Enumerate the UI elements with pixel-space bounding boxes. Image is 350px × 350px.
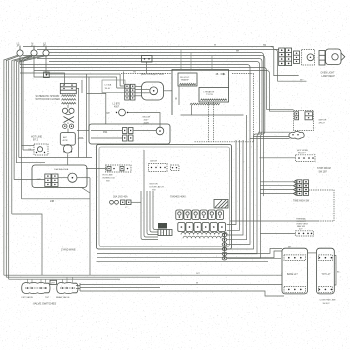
wire bbox=[18, 62, 20, 158]
wire bbox=[14, 179, 45, 181]
wire bbox=[135, 95, 142, 97]
wire bbox=[254, 136, 289, 138]
wire bbox=[76, 283, 80, 291]
wire bbox=[264, 68, 294, 110]
wire bbox=[20, 67, 264, 69]
label sensor bbox=[113, 104, 121, 109]
wire bbox=[271, 47, 299, 76]
relay K1 bbox=[28, 144, 48, 155]
sensor RT1 bbox=[107, 109, 129, 116]
label oven light bbox=[321, 73, 336, 78]
wire bbox=[81, 80, 83, 93]
wire bbox=[3, 60, 5, 276]
wire bbox=[16, 62, 18, 164]
control panel outline bbox=[121, 73, 172, 75]
wire bbox=[67, 105, 69, 108]
wire bbox=[227, 65, 250, 245]
wire bbox=[267, 71, 294, 112]
fuse F1 bbox=[44, 72, 50, 78]
wire bbox=[144, 150, 158, 237]
control outer box bbox=[172, 70, 229, 116]
node bbox=[222, 233, 227, 236]
wire bbox=[131, 201, 141, 203]
wire bbox=[227, 56, 265, 259]
wire bbox=[5, 60, 7, 277]
wire bbox=[91, 130, 123, 132]
wire bbox=[67, 123, 69, 125]
wire bbox=[9, 278, 120, 280]
wire bbox=[308, 252, 317, 254]
wire bbox=[58, 177, 68, 179]
door interlock switch S3 bbox=[106, 165, 132, 172]
wire bbox=[22, 62, 24, 150]
ignitor row bbox=[296, 155, 316, 162]
label convect fan bbox=[133, 72, 164, 77]
label hot line bbox=[31, 136, 42, 142]
sawtooth row bbox=[190, 103, 220, 105]
convection fan motor B1 bbox=[142, 82, 164, 100]
wire bbox=[22, 145, 35, 147]
wire bbox=[91, 137, 123, 139]
wire bbox=[190, 53, 192, 70]
wire bbox=[135, 92, 150, 94]
wire bbox=[119, 74, 121, 86]
wire bbox=[89, 178, 91, 276]
oven control U2 bbox=[199, 88, 229, 103]
wire bbox=[261, 53, 264, 197]
wire bbox=[135, 89, 150, 91]
timer motor M2 bbox=[68, 173, 77, 182]
door draft row bbox=[110, 200, 131, 209]
latch box inner bbox=[99, 147, 230, 247]
label schematic note bbox=[36, 95, 61, 101]
contact strip A bbox=[45, 174, 51, 187]
ignitor blob bbox=[289, 132, 304, 140]
wire bbox=[21, 61, 23, 199]
terminal pair T1 bbox=[123, 128, 134, 134]
wire bbox=[164, 90, 173, 92]
wire bbox=[12, 214, 42, 275]
wire bbox=[150, 191, 158, 232]
wire bbox=[82, 188, 91, 194]
panel dashed bottom bbox=[195, 141, 254, 143]
wire bbox=[260, 232, 296, 234]
contact strip B bbox=[52, 174, 58, 187]
wire bbox=[76, 88, 78, 90]
wire bbox=[88, 77, 90, 131]
wire bbox=[260, 157, 296, 159]
label bbox=[143, 117, 151, 125]
wire bbox=[97, 249, 282, 254]
relay contact block K2 bbox=[125, 84, 135, 100]
connector P1 bbox=[142, 56, 153, 74]
wire bbox=[97, 260, 269, 262]
wire bbox=[77, 177, 90, 179]
wire bbox=[230, 220, 318, 222]
thermal fuse row bbox=[296, 231, 314, 236]
control panel outline bbox=[253, 74, 255, 142]
label ignitor bbox=[297, 150, 308, 155]
wire bbox=[318, 220, 334, 222]
node bbox=[222, 247, 227, 250]
wire bbox=[49, 52, 261, 54]
label bbox=[319, 119, 327, 124]
transformer box U1 bbox=[178, 73, 197, 86]
wire bbox=[178, 86, 180, 105]
node bbox=[222, 243, 227, 246]
wire bbox=[23, 46, 274, 48]
wire bbox=[22, 56, 33, 62]
connector pair bbox=[294, 51, 300, 64]
wire bbox=[67, 154, 69, 165]
wire bbox=[80, 284, 282, 286]
wire bbox=[309, 190, 335, 221]
wire bbox=[77, 130, 89, 132]
wire bbox=[28, 277, 73, 283]
wire bbox=[227, 140, 243, 235]
wire bbox=[46, 56, 120, 74]
wire bbox=[141, 191, 158, 240]
node bbox=[222, 257, 227, 260]
wire bbox=[80, 287, 160, 289]
lamp receptacle LT3 bbox=[326, 49, 345, 65]
wire bbox=[87, 93, 106, 124]
wire bbox=[19, 157, 92, 159]
wire bbox=[4, 274, 282, 276]
element E0 bbox=[62, 95, 76, 104]
wire bbox=[37, 58, 259, 60]
wire bbox=[8, 61, 10, 280]
label ratings bbox=[113, 195, 186, 198]
wire bbox=[227, 257, 281, 259]
label latch sw bbox=[150, 184, 165, 192]
wire bbox=[227, 59, 262, 254]
ribbon bbox=[208, 102, 210, 142]
label interlock bbox=[103, 175, 116, 183]
terminal pair T2 bbox=[123, 135, 134, 141]
wire bbox=[12, 55, 33, 61]
terminal row 1 bbox=[176, 210, 224, 220]
terminal strip bbox=[286, 48, 292, 66]
scallop row bbox=[183, 236, 225, 238]
interlock X1 bbox=[64, 117, 75, 123]
control panel outline bbox=[232, 73, 254, 75]
wire bbox=[180, 50, 182, 70]
relay hatch K3 bbox=[214, 200, 228, 209]
node bbox=[222, 238, 227, 241]
wire bbox=[153, 191, 158, 230]
scallop row bbox=[181, 232, 227, 234]
sensor bulb RT2 bbox=[156, 127, 164, 135]
label box bbox=[50, 280, 57, 284]
wire bbox=[34, 70, 267, 72]
wire bbox=[117, 86, 125, 88]
terminal N bbox=[31, 42, 37, 57]
wire bbox=[78, 88, 80, 158]
wire bbox=[258, 131, 290, 133]
wire bbox=[37, 49, 279, 51]
broil unit E1 bbox=[294, 111, 314, 131]
wire bbox=[17, 55, 45, 62]
lamp bracket bbox=[319, 51, 325, 66]
label thermal bbox=[296, 218, 309, 231]
wire bbox=[181, 114, 244, 116]
wire bbox=[135, 86, 142, 88]
contacts C1 bbox=[63, 124, 74, 128]
oven lamp LT2 bbox=[302, 50, 315, 66]
wire bbox=[211, 56, 213, 70]
valve switch V2 bbox=[57, 282, 78, 293]
ribbon bbox=[213, 102, 215, 142]
label conv line bbox=[320, 300, 337, 305]
wire bbox=[227, 140, 240, 230]
wire bbox=[133, 130, 156, 132]
wire bbox=[275, 50, 307, 82]
terminal row 2 bbox=[178, 223, 226, 232]
burner box bbox=[282, 248, 308, 294]
wire bbox=[34, 56, 117, 77]
wire bbox=[250, 138, 290, 140]
door latch switch S4 bbox=[149, 160, 168, 172]
contacts C0 bbox=[62, 108, 74, 114]
timer assembly box bbox=[32, 165, 87, 188]
relay box K0 bbox=[60, 83, 76, 93]
wire bbox=[23, 149, 34, 151]
wire bbox=[191, 105, 193, 115]
relay R1 bbox=[158, 223, 172, 236]
terminal strip bbox=[279, 48, 285, 66]
wire bbox=[123, 72, 125, 85]
wire bbox=[147, 191, 158, 235]
wire bbox=[19, 56, 21, 64]
wire bbox=[4, 55, 19, 60]
wire bbox=[6, 276, 160, 278]
label stop drum bbox=[317, 168, 331, 173]
wire bbox=[49, 61, 257, 63]
terminal L1 bbox=[17, 42, 23, 57]
wire bbox=[17, 161, 46, 163]
oven box outline bbox=[89, 124, 170, 144]
wire bbox=[334, 256, 336, 286]
latch box outline bbox=[97, 145, 232, 250]
wire bbox=[20, 64, 247, 66]
wire bbox=[128, 113, 160, 128]
wire bbox=[116, 77, 118, 88]
wire bbox=[13, 61, 15, 180]
burner box bbox=[317, 248, 335, 294]
wire bbox=[22, 198, 91, 200]
wire bbox=[23, 55, 262, 57]
oven light LT1 bbox=[63, 145, 72, 154]
wire bbox=[67, 129, 69, 133]
wire bbox=[97, 251, 282, 258]
junction box bbox=[102, 80, 125, 93]
wire bbox=[80, 291, 284, 296]
terminal L2 bbox=[43, 42, 49, 57]
wire bbox=[227, 115, 247, 240]
wire bbox=[20, 73, 65, 85]
switch block S5 bbox=[260, 180, 309, 196]
wire bbox=[86, 168, 107, 170]
wire bbox=[86, 74, 88, 158]
node bbox=[222, 252, 227, 255]
valve switch V1 bbox=[22, 282, 50, 293]
wire bbox=[11, 61, 13, 215]
wire bbox=[224, 232, 226, 258]
motor M1 bbox=[60, 133, 84, 146]
contact row bbox=[171, 165, 180, 171]
wire bbox=[227, 62, 260, 250]
wire bbox=[227, 140, 236, 225]
